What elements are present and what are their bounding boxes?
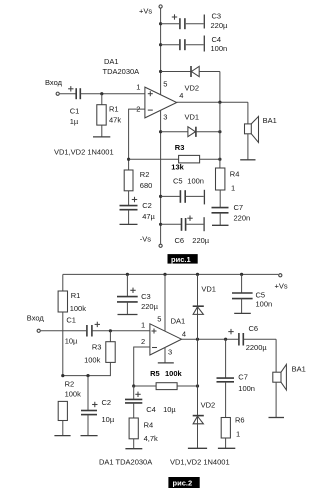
svg-text:100n: 100n (256, 300, 273, 309)
svg-text:R2: R2 (140, 170, 150, 179)
svg-text:2: 2 (141, 337, 145, 346)
wire input (60, 93, 76, 95)
ground C7 (212, 224, 229, 226)
terminal +Vs (275, 274, 288, 291)
svg-text:R2: R2 (65, 380, 75, 389)
wire VD2 to output (219, 72, 221, 103)
wire pin2 to feedback node (129, 109, 145, 170)
ground pin3 (158, 362, 174, 364)
capacitor C5 100n (232, 274, 272, 313)
svg-text:R3: R3 (92, 343, 102, 352)
ground R4 (125, 448, 142, 450)
resistor R3 100k (63, 331, 115, 376)
svg-text:C2: C2 (142, 201, 152, 210)
svg-text:1: 1 (236, 430, 240, 439)
svg-text:C3: C3 (212, 12, 222, 21)
svg-text:DA1 TDA2030A: DA1 TDA2030A (99, 458, 152, 467)
svg-text:VD1,VD2 1N4001: VD1,VD2 1N4001 (170, 458, 230, 467)
capacitor C4 10µ (125, 386, 176, 418)
svg-text:10µ: 10µ (102, 415, 115, 424)
resistor R1 47k (97, 94, 122, 137)
wire pin3 to ground (164, 348, 166, 363)
node VD1 right (218, 130, 221, 133)
badge рис.2 (168, 477, 199, 488)
svg-text:C4: C4 (212, 35, 222, 44)
svg-text:100n: 100n (211, 44, 228, 53)
capacitor C7 220n (212, 203, 251, 226)
svg-text:C6: C6 (249, 324, 259, 333)
wire output row (177, 101, 248, 103)
diode VD1 (161, 113, 220, 137)
svg-text:220n: 220n (234, 214, 251, 223)
svg-text:C7: C7 (238, 373, 248, 382)
diode VD2 (161, 66, 220, 93)
ground C2 (120, 223, 138, 225)
ground R2 (54, 435, 70, 437)
capacitor C3 220µ (117, 274, 159, 314)
node rail C5 (240, 273, 243, 276)
svg-text:2200µ: 2200µ (246, 343, 268, 352)
svg-text:13k: 13k (171, 162, 184, 171)
svg-text:4: 4 (179, 91, 183, 100)
svg-text:C5: C5 (256, 291, 266, 300)
svg-text:VD1: VD1 (185, 113, 200, 122)
svg-text:Вход: Вход (45, 78, 63, 87)
ground R6 (218, 447, 235, 449)
ground C6 (203, 217, 205, 231)
resistor R3 13k (129, 143, 220, 171)
svg-text:DA1: DA1 (171, 317, 186, 326)
resistor R5 100k (134, 369, 198, 389)
wire input row (41, 330, 86, 332)
ground C5 (203, 190, 205, 205)
svg-text:220µ: 220µ (211, 21, 229, 30)
svg-text:10µ: 10µ (163, 405, 176, 414)
svg-text:220µ: 220µ (141, 302, 159, 311)
wire C1 to op-amp pin1 (81, 93, 145, 95)
wire -Vs vertical (160, 110, 162, 244)
svg-text:C1: C1 (70, 106, 80, 115)
svg-text:3: 3 (163, 112, 167, 121)
node C3 tap (159, 22, 162, 25)
ground C3 (203, 15, 205, 29)
svg-text:C1: C1 (66, 315, 76, 324)
svg-text:рис.2: рис.2 (173, 479, 193, 488)
svg-text:R4: R4 (230, 169, 240, 178)
svg-text:1: 1 (136, 83, 140, 92)
wire C1 to op-amp pin1 (92, 330, 149, 332)
svg-text:R3: R3 (175, 143, 185, 152)
svg-text:C3: C3 (141, 292, 151, 301)
resistor R4 4,7k (129, 418, 158, 449)
svg-text:100k: 100k (65, 389, 82, 398)
wire +Vs vertical rail (160, 9, 162, 95)
svg-text:VD1: VD1 (201, 284, 216, 293)
capacitor C3 220µ (161, 12, 228, 31)
ground C3 (118, 314, 138, 316)
diode VD2 (193, 339, 215, 448)
svg-text:+Vs: +Vs (139, 6, 152, 15)
ground BA1 (240, 159, 255, 161)
op-amp DA1 TDA2030A (141, 314, 186, 356)
node divider R2 (61, 374, 64, 377)
svg-text:VD1,VD2 1N4001: VD1,VD2 1N4001 (54, 147, 114, 156)
diode VD1 (193, 274, 216, 339)
terminal -Vs (140, 235, 162, 248)
svg-text:5: 5 (163, 79, 167, 88)
wire pin5 (164, 274, 166, 331)
svg-text:100k: 100k (70, 304, 87, 313)
svg-text:BA1: BA1 (263, 116, 277, 125)
svg-text:+Vs: +Vs (275, 281, 288, 290)
speaker BA1 (273, 339, 306, 417)
wire output column (219, 102, 221, 168)
capacitor C4 100n (161, 35, 228, 53)
svg-text:100k: 100k (165, 369, 183, 378)
wire +Vs top rail (63, 273, 278, 275)
node rail pin5 (163, 273, 166, 276)
svg-text:Вход: Вход (27, 313, 45, 322)
node C4 tap (159, 43, 162, 46)
svg-text:3: 3 (168, 347, 172, 356)
resistor R2 680 (124, 170, 152, 205)
terminal input Вход (45, 78, 63, 95)
svg-text:R6: R6 (235, 416, 245, 425)
node input R3 (109, 329, 112, 332)
wire pin2 to feedback node (134, 347, 150, 386)
svg-text:100k: 100k (84, 355, 101, 364)
node VD2 tap (159, 70, 162, 73)
svg-text:C4: C4 (146, 405, 156, 414)
node rail VD1 (196, 273, 199, 276)
svg-text:VD2: VD2 (185, 84, 200, 93)
svg-text:220µ: 220µ (192, 236, 210, 245)
node input/R1 (100, 92, 103, 95)
svg-text:R4: R4 (144, 421, 154, 430)
svg-text:1µ: 1µ (70, 117, 79, 126)
svg-text:10µ: 10µ (65, 337, 78, 346)
ground C4 (203, 36, 205, 52)
node feedback (127, 158, 130, 161)
svg-text:C6: C6 (175, 236, 185, 245)
svg-text:R1: R1 (71, 291, 81, 300)
ground C2 (81, 435, 98, 437)
node rail C3 (126, 273, 129, 276)
ground VD2 (188, 447, 207, 449)
op-amp DA1 TDA2030A (103, 57, 184, 121)
svg-text:680: 680 (140, 181, 153, 190)
svg-text:DA1: DA1 (104, 57, 119, 66)
svg-text:C2: C2 (102, 398, 112, 407)
ground C5 (234, 312, 251, 314)
badge рис.1 (168, 254, 198, 264)
svg-text:TDA2030A: TDA2030A (103, 67, 140, 76)
svg-text:100n: 100n (238, 384, 255, 393)
node C5 left (159, 195, 162, 198)
ground R1 (93, 136, 110, 138)
svg-text:C7: C7 (234, 203, 244, 212)
svg-text:47µ: 47µ (142, 212, 155, 221)
speaker BA1 (245, 102, 277, 160)
capacitor C2 47µ (120, 197, 156, 225)
capacitor C7 100n (217, 339, 255, 417)
wire output row (182, 338, 239, 340)
svg-text:1: 1 (231, 184, 235, 193)
node feedback output column (196, 384, 199, 387)
capacitor C1 1µ (68, 86, 80, 126)
svg-text:VD2: VD2 (201, 400, 216, 409)
svg-text:4,7k: 4,7k (144, 434, 158, 443)
svg-text:C5: C5 (173, 176, 183, 185)
resistor R6 1 (221, 416, 244, 449)
svg-text:R1: R1 (109, 104, 119, 113)
svg-text:BA1: BA1 (292, 364, 306, 373)
resistor R2 100k (58, 380, 81, 436)
capacitor C1 10µ (65, 315, 100, 345)
svg-text:5: 5 (157, 314, 161, 323)
node output VD column (196, 338, 199, 341)
terminal +Vs (139, 5, 162, 15)
capacitor C6 220µ (161, 216, 210, 245)
node C6 left (159, 223, 162, 226)
svg-text:4: 4 (182, 329, 186, 338)
ground BA1 (269, 417, 285, 419)
svg-text:R5: R5 (150, 369, 160, 378)
node output C7 column (224, 338, 227, 341)
svg-text:100n: 100n (187, 176, 204, 185)
svg-text:1: 1 (141, 320, 145, 329)
resistor R1 100k (58, 274, 86, 375)
terminal input Вход (27, 313, 45, 332)
capacitor C6 2200µ (228, 324, 276, 352)
node R3 right (218, 158, 221, 161)
svg-text:47k: 47k (109, 116, 121, 125)
node VD1 left (159, 130, 162, 133)
resistor R4 1 (216, 168, 240, 207)
node feedback (132, 384, 135, 387)
svg-text:рис.1: рис.1 (171, 255, 191, 264)
node divider C2 (86, 374, 89, 377)
svg-text:-Vs: -Vs (140, 235, 152, 244)
capacitor C5 100n (161, 176, 204, 203)
node output (218, 101, 221, 104)
capacitor C2 10µ (81, 376, 115, 436)
